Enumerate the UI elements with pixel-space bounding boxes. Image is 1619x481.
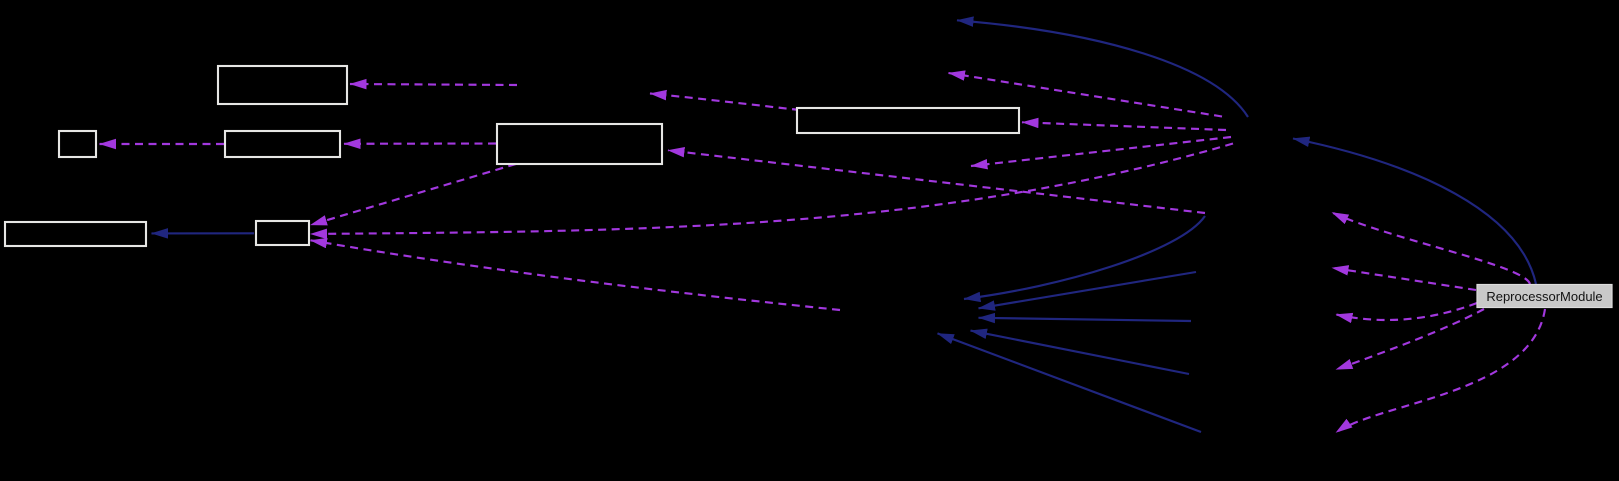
wire: dashed edge box C to box B (100, 143, 225, 145)
node box C (225, 131, 340, 157)
wire: dashed edge node P1 to hidden node left (971, 137, 1231, 166)
wire: dashed edge ReprocessorModule to hidden node Nc (1336, 303, 1477, 320)
node box A (218, 66, 347, 104)
node box G (256, 221, 309, 245)
wire: blue inheritance edge ReprocessorModule to node P1 (1293, 139, 1536, 285)
wire: blue inheritance edge hidden node Nd to hidden node P2 (971, 331, 1190, 374)
wire: dashed edge box D bottom to box G (311, 164, 517, 225)
wire: blue inheritance edge node P1 to hidden node top (957, 20, 1248, 117)
wire: blue inheritance edge hidden node Nb to hidden node P2 (979, 272, 1197, 308)
node box D (497, 124, 662, 164)
wire: blue inheritance edge hidden node Nc to hidden node P2 (979, 318, 1192, 321)
wire: dashed edge hidden node N1 to box A (350, 84, 517, 85)
node box E (797, 108, 1019, 133)
wire: dashed edge hidden node Na to box D (668, 150, 1205, 213)
node box F (5, 222, 146, 246)
svg-text:ReprocessorModule: ReprocessorModule (1486, 289, 1602, 304)
wire: dashed edge ReprocessorModule to hidden node Na (1332, 213, 1530, 285)
wire: dashed edge node P1 to box E (1022, 122, 1226, 130)
wire: dashed edge hidden node P2 to box G (311, 240, 841, 310)
wire: blue inheritance edge hidden node Ne to hidden node P2 (938, 333, 1202, 432)
node ReprocessorModule (1477, 285, 1612, 308)
wire: blue inheritance edge hidden node Na to hidden node P2 (964, 216, 1205, 299)
node box B (59, 131, 96, 157)
wire: blue inheritance edge box G to box F (152, 232, 255, 234)
wire: dashed edge ReprocessorModule to hidden node Nb (1332, 268, 1476, 290)
wire: dashed edge node P1 to hidden node upper-left (949, 73, 1223, 117)
wire: dashed curved edge node P1 to hidden node N1 (650, 94, 800, 111)
wire: dashed edge ReprocessorModule to hidden node Ne (1336, 309, 1545, 433)
wire: dashed edge ReprocessorModule to hidden node Nd (1336, 309, 1484, 370)
wire: dashed curved edge node P1 to box G (311, 144, 1234, 235)
wire: dashed edge box D to box C (344, 142, 496, 144)
